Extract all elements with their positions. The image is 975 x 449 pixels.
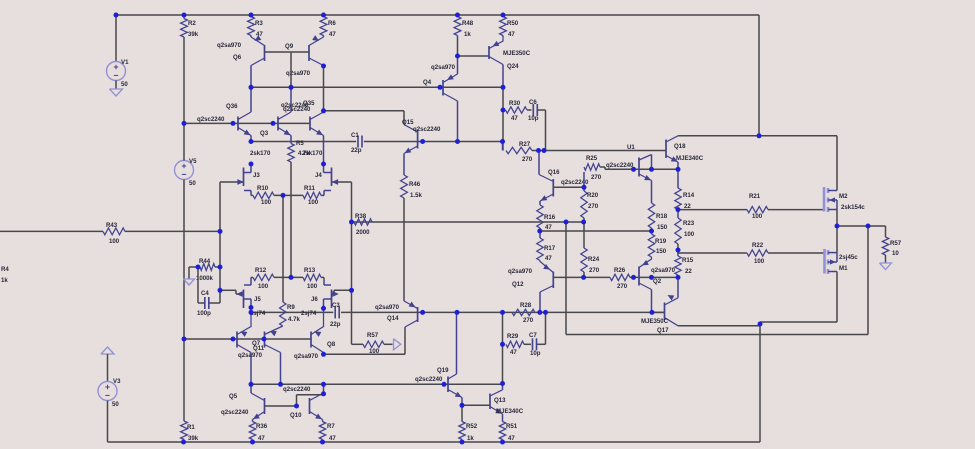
svg-text:47: 47 [511, 115, 518, 122]
svg-text:Q14: Q14 [387, 315, 399, 322]
wire lower cascode base rail [184, 338, 311, 340]
svg-text:R29: R29 [507, 333, 519, 340]
resistor R29 47 [506, 333, 531, 356]
svg-text:M2: M2 [839, 193, 848, 200]
svg-text:R46: R46 [409, 181, 421, 188]
svg-text:270: 270 [523, 317, 534, 324]
resistor R14 22 [675, 169, 695, 210]
svg-text:R6: R6 [328, 20, 336, 27]
svg-text:R36: R36 [256, 423, 268, 430]
wire V+ rail drop right [758, 15, 760, 136]
svg-text:R24: R24 [588, 256, 600, 263]
resistor R38 2000 [354, 213, 372, 236]
svg-text:q2sa970: q2sa970 [238, 352, 263, 359]
svg-text:R21: R21 [749, 193, 761, 200]
svg-text:Q19: Q19 [437, 367, 449, 374]
transistor U1 q2sc2240 diode-connected [606, 144, 652, 203]
svg-text:Q12: Q12 [512, 281, 524, 288]
resistor R1 39k [181, 339, 199, 442]
svg-text:C7: C7 [529, 332, 537, 339]
JFET J5 2sj74 [220, 280, 266, 317]
wire tail to R9 [282, 195, 284, 302]
svg-text:2sj74: 2sj74 [301, 310, 317, 317]
svg-text:MJE340C: MJE340C [496, 408, 524, 415]
svg-text:150: 150 [656, 248, 667, 255]
transistor Q6 q2sa970 [217, 36, 265, 87]
svg-text:R16: R16 [544, 214, 556, 221]
svg-text:q2sc2240: q2sc2240 [415, 376, 443, 383]
svg-text:R57: R57 [890, 240, 902, 247]
wire Q5-Q10 bases [265, 393, 324, 406]
svg-text:R5: R5 [296, 140, 304, 147]
resistor R20 270 [581, 187, 599, 222]
svg-text:R15: R15 [682, 257, 694, 264]
svg-text:q2sc2240: q2sc2240 [413, 126, 441, 133]
svg-text:Q24: Q24 [507, 63, 519, 70]
resistor R25 270 [584, 155, 605, 187]
svg-text:Q10: Q10 [290, 412, 302, 419]
svg-text:R2: R2 [188, 20, 196, 27]
svg-text:Q2: Q2 [653, 278, 662, 285]
wire VAS out to Q18 base [537, 150, 666, 152]
svg-text:R10: R10 [257, 185, 269, 192]
wire Q6-Q9 bases [265, 52, 310, 87]
svg-text:q2sc2240: q2sc2240 [606, 162, 634, 169]
svg-text:47: 47 [329, 435, 336, 442]
svg-text:100: 100 [752, 213, 763, 220]
svg-text:MJE350C: MJE350C [641, 318, 669, 325]
svg-text:50: 50 [121, 81, 128, 88]
resistor R44 1000k [196, 258, 220, 282]
resistor R19 150 [648, 231, 666, 257]
wire Q17 collector to V- node [678, 325, 760, 327]
resistor R46 1.5k [401, 154, 423, 301]
svg-text:R20: R20 [587, 192, 599, 199]
svg-text:V3: V3 [113, 378, 121, 385]
svg-text:1.5k: 1.5k [410, 192, 422, 199]
resistor R15 22 [675, 250, 694, 277]
svg-text:Q3: Q3 [260, 130, 269, 137]
svg-text:100: 100 [369, 348, 380, 355]
svg-text:V5: V5 [189, 158, 197, 165]
svg-text:47: 47 [256, 31, 263, 38]
svg-text:R12: R12 [255, 267, 267, 274]
resistor R10 100 [251, 185, 303, 206]
svg-text:R9: R9 [287, 304, 295, 311]
wire top V+ rail [116, 14, 759, 16]
resistor R24 270 [581, 222, 600, 277]
transistor Q2 q2sa970 [639, 257, 676, 312]
wire Q35 collector to Q15 collector [324, 111, 405, 125]
svg-text:1k: 1k [1, 277, 8, 284]
svg-text:Q8: Q8 [327, 341, 336, 348]
transistor Q7 q2sa970 [237, 308, 265, 385]
svg-text:47: 47 [545, 255, 552, 262]
resistor R16 47 [537, 201, 556, 231]
svg-text:J4: J4 [315, 172, 322, 179]
resistor R18 150 [648, 203, 667, 231]
transistor Q4 q2sa970 [423, 56, 458, 142]
transistor Q9 q2sa970 [285, 36, 324, 77]
wire Q13 collector column [502, 312, 504, 383]
wire Q9 collector to Q35 collector [323, 66, 325, 112]
svg-text:270: 270 [591, 174, 602, 181]
svg-text:MJE350C: MJE350C [503, 50, 531, 57]
svg-text:Q18: Q18 [674, 143, 686, 150]
svg-text:100: 100 [684, 231, 695, 238]
svg-text:R38: R38 [355, 213, 367, 220]
wire Q24 base [458, 55, 490, 57]
svg-text:R3: R3 [255, 20, 263, 27]
resistor R4 1k labels [1, 266, 9, 284]
svg-text:100: 100 [754, 258, 765, 265]
resistor R7 47 [319, 420, 336, 443]
svg-text:q2sa970: q2sa970 [286, 70, 311, 77]
svg-text:R28: R28 [520, 302, 532, 309]
wire lower base net y312 [251, 311, 665, 313]
svg-text:47: 47 [508, 435, 515, 442]
wire Q16 base [553, 186, 584, 188]
svg-text:R1: R1 [187, 424, 195, 431]
wire Q13 base [462, 404, 490, 406]
svg-text:R48: R48 [462, 20, 474, 27]
svg-text:R44: R44 [199, 258, 211, 265]
wire U1 base net [605, 168, 678, 170]
svg-text:Q5: Q5 [229, 393, 238, 400]
svg-text:R13: R13 [304, 267, 316, 274]
svg-text:V1: V1 [121, 59, 129, 66]
svg-text:q2sc2240: q2sc2240 [221, 409, 249, 416]
svg-text:10: 10 [892, 250, 899, 257]
svg-text:R52: R52 [466, 423, 478, 430]
wire output sense vertical [566, 222, 868, 335]
svg-text:2sk170: 2sk170 [250, 150, 271, 157]
svg-text:q2sa970: q2sa970 [651, 267, 676, 274]
wire J-gate feedback column [351, 182, 353, 344]
svg-text:R43: R43 [106, 222, 118, 229]
ground at output resistor [880, 263, 892, 270]
transistor Q35 q2sc2240 [281, 100, 324, 164]
JFET J4 2sk170 [302, 150, 352, 195]
resistor R36 47 [249, 420, 267, 443]
svg-text:q2sa970: q2sa970 [431, 64, 456, 71]
svg-text:100: 100 [261, 199, 272, 206]
transistor Q3 q2sc2240 [260, 87, 291, 141]
svg-text:R19: R19 [655, 238, 667, 245]
wire output node [837, 225, 886, 227]
resistor R57 100 [352, 332, 393, 355]
voltage source V5 [175, 123, 198, 339]
svg-text:22: 22 [685, 268, 692, 275]
svg-text:q2sa970: q2sa970 [294, 353, 319, 360]
svg-text:39k: 39k [188, 31, 199, 38]
svg-text:q2sa970: q2sa970 [217, 42, 242, 49]
svg-text:100: 100 [308, 199, 319, 206]
svg-text:q2sc2240: q2sc2240 [283, 106, 311, 113]
wire upper cascode base rail [184, 122, 310, 124]
svg-text:R14: R14 [683, 192, 695, 199]
transistor Q8 q2sa970 [311, 308, 336, 354]
ground at R44 [184, 267, 199, 285]
transistor Q5 q2sc2240 [221, 384, 265, 419]
svg-text:47: 47 [510, 349, 517, 356]
transistor Q18 MJE340C [666, 136, 704, 170]
svg-text:Q16: Q16 [548, 169, 560, 176]
resistor R27 270 [503, 141, 538, 163]
resistor R6 47 [320, 17, 336, 39]
svg-text:1k: 1k [467, 435, 474, 442]
svg-text:M1: M1 [839, 265, 848, 272]
svg-text:R11: R11 [304, 185, 315, 192]
svg-text:R17: R17 [544, 245, 556, 252]
svg-text:Q4: Q4 [423, 79, 432, 86]
wire R16-R17 to R18-R19 [540, 230, 652, 232]
MOSFET M1 2sj45c [825, 226, 859, 322]
svg-text:Q9: Q9 [285, 43, 294, 50]
svg-text:C3: C3 [332, 302, 340, 309]
transistor Q13 MJE340C [490, 384, 524, 422]
wire input [0, 230, 103, 232]
transistor Q19 q2sc2240 [415, 312, 462, 405]
svg-text:R23: R23 [683, 220, 695, 227]
JFET J3 2sk170 [220, 150, 271, 195]
wire C1 net y141 [251, 141, 503, 143]
svg-text:270: 270 [589, 267, 600, 274]
capacitor C6 10p [528, 99, 546, 151]
svg-text:50: 50 [112, 401, 119, 408]
svg-text:4.7k: 4.7k [288, 316, 300, 323]
svg-text:Q17: Q17 [657, 327, 669, 334]
wire Q18 collector to V+ [678, 135, 837, 137]
svg-text:2000: 2000 [356, 229, 370, 236]
svg-text:10p: 10p [530, 350, 541, 357]
svg-text:R4: R4 [1, 266, 9, 273]
svg-text:MJE340C: MJE340C [676, 155, 704, 162]
svg-text:R51: R51 [506, 423, 518, 430]
svg-text:47: 47 [329, 31, 336, 38]
transistor Q15 q2sc2240 [402, 119, 441, 154]
svg-text:270: 270 [617, 283, 628, 290]
wire Q8 collector net y354 [324, 330, 406, 354]
svg-text:47: 47 [508, 31, 515, 38]
svg-text:q2sc2240: q2sc2240 [283, 386, 311, 393]
svg-text:q2sc2240: q2sc2240 [197, 116, 225, 123]
svg-text:Q6: Q6 [233, 54, 242, 61]
svg-text:R18: R18 [656, 213, 668, 220]
svg-text:J3: J3 [253, 172, 260, 179]
resistor R23 100 [675, 210, 695, 250]
transistor Q24 MJE350C [489, 37, 531, 87]
ground above V3 [101, 347, 114, 354]
svg-text:100: 100 [307, 283, 318, 290]
svg-text:270: 270 [522, 156, 533, 163]
svg-text:R22: R22 [752, 242, 764, 249]
svg-text:U1: U1 [627, 144, 635, 151]
svg-text:10p: 10p [528, 115, 539, 122]
wire Q12 base [553, 276, 584, 278]
svg-text:1k: 1k [464, 31, 471, 38]
resistor R12 100 [251, 267, 303, 290]
svg-text:q2sa970: q2sa970 [508, 268, 533, 275]
resistor R53 10 output [882, 226, 901, 263]
wire Q24 collector column [502, 87, 504, 150]
svg-text:R7: R7 [327, 423, 335, 430]
wire M1 drain to V- [760, 321, 837, 323]
svg-text:J6: J6 [311, 296, 318, 303]
svg-text:2sj45c: 2sj45c [839, 254, 858, 261]
resistor R26 270 [584, 267, 634, 290]
svg-text:47: 47 [545, 224, 552, 231]
svg-text:R57: R57 [367, 332, 379, 339]
transistor Q10 q2sc2240 diode-connected [290, 384, 324, 419]
wire Q2 base net [634, 276, 679, 278]
resistor R21 100 [678, 193, 824, 220]
svg-text:R30: R30 [509, 100, 521, 107]
svg-text:C4: C4 [201, 290, 209, 297]
transistor Q36 q2sc2240 [197, 87, 251, 141]
capacitor C1 22p [351, 132, 362, 154]
resistor R43 100 [103, 222, 220, 245]
svg-text:C1: C1 [351, 132, 359, 139]
svg-text:4.7k: 4.7k [298, 150, 310, 157]
transistor Q17 MJE350C [641, 277, 678, 334]
svg-text:Q36: Q36 [226, 103, 238, 110]
wire input node vertical [219, 182, 221, 303]
wire feedback net y222 [352, 221, 584, 223]
label q2sc2240 mirror [283, 386, 311, 393]
resistor R11 100 [303, 185, 324, 206]
resistor R30 47 [506, 100, 532, 122]
resistor R9 4.7k lower [280, 302, 301, 326]
resistor R13 100 [303, 267, 324, 290]
capacitor C3 22p [330, 302, 341, 328]
svg-text:100: 100 [258, 283, 269, 290]
svg-text:2sk154c: 2sk154c [841, 204, 865, 211]
voltage source V3 [98, 354, 121, 442]
svg-text:Q11: Q11 [253, 345, 265, 352]
wire mirror output rail y87 [251, 86, 503, 88]
svg-text:50: 50 [189, 180, 196, 187]
svg-text:Q15: Q15 [402, 119, 414, 126]
svg-text:q2sa970: q2sa970 [375, 304, 400, 311]
resistor R3 47 [248, 17, 264, 39]
resistor R17 47 [537, 231, 556, 262]
resistor R22 100 [678, 242, 825, 265]
svg-text:47: 47 [258, 435, 265, 442]
svg-text:R50: R50 [507, 20, 519, 27]
transistor Q11 q2sa970 [265, 326, 319, 384]
wire V- drop [759, 322, 761, 442]
resistor R5 4.7k upper [288, 140, 311, 277]
transistor Q16 q2sc2240 [539, 151, 589, 202]
resistor R48 1k [454, 17, 474, 57]
wire bottom V- rail [108, 441, 761, 443]
resistor R51 47 [499, 422, 517, 443]
JFET J6 2sj74 [301, 280, 352, 317]
svg-text:C6: C6 [529, 99, 537, 106]
resistor R50 47 [500, 17, 519, 39]
resistor R52 1k [459, 405, 478, 442]
wire mirror net y384 [251, 383, 503, 385]
voltage source V1 [107, 15, 130, 89]
svg-text:39k: 39k [188, 435, 199, 442]
transistor Q14 q2sa970 [375, 300, 418, 330]
capacitor C4 100p [197, 267, 220, 317]
resistor R28 270 [512, 302, 535, 324]
MOSFET M2 2sk154c [824, 136, 865, 226]
resistor R2 39k [181, 15, 199, 123]
svg-text:R27: R27 [519, 141, 531, 148]
ground below V1 [110, 89, 123, 96]
svg-text:R25: R25 [586, 155, 598, 162]
svg-text:270: 270 [588, 203, 599, 210]
svg-text:100: 100 [109, 238, 120, 245]
svg-text:22p: 22p [330, 321, 341, 328]
svg-text:150: 150 [657, 224, 668, 231]
port flag arrow [394, 339, 401, 350]
capacitor C7 10p [529, 312, 546, 357]
svg-text:Q13: Q13 [494, 397, 506, 404]
svg-text:100p: 100p [197, 310, 211, 317]
svg-text:R26: R26 [614, 267, 626, 274]
svg-text:22p: 22p [351, 147, 362, 154]
svg-text:J5: J5 [254, 296, 261, 303]
transistor Q12 q2sa970 [508, 261, 553, 313]
